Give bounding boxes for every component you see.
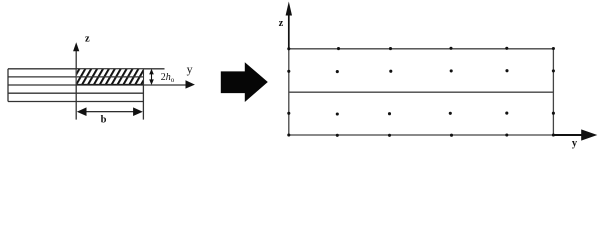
y-axis arrowhead (right figure) bbox=[581, 129, 597, 140]
beam layer line 4 bbox=[8, 92, 143, 94]
z-axis arrowhead (left figure) bbox=[73, 42, 79, 51]
z-axis line + b tick left bbox=[75, 51, 77, 120]
mesh node dots bbox=[287, 47, 555, 137]
mesh rect top edge bbox=[289, 48, 554, 50]
node row 2 (upper half middle) bbox=[287, 70, 290, 73]
node row 1 (top edge) bbox=[287, 47, 290, 50]
y-axis arrowhead (left figure) bbox=[186, 80, 195, 88]
node row 4 (bottom edge) bbox=[287, 133, 290, 136]
mesh rect left edge + z-axis line bbox=[288, 49, 290, 135]
z-axis line (right figure) bbox=[288, 13, 290, 50]
beam right edge + b tick right bbox=[142, 69, 144, 120]
beam left edge bbox=[7, 69, 9, 102]
hatched actuator layer bbox=[77, 69, 143, 84]
mesh rect right edge bbox=[552, 49, 554, 135]
mesh rect bottom edge / y-axis line bbox=[289, 134, 554, 136]
svg-text:b: b bbox=[101, 115, 107, 126]
z-axis arrowhead (right figure) bbox=[286, 2, 292, 16]
mesh rect mid line bbox=[289, 91, 554, 93]
b dimension double arrow bbox=[79, 111, 141, 113]
beam layer line 3 (midline / y-axis) bbox=[8, 84, 191, 86]
y-axis line (right figure) bbox=[553, 134, 584, 136]
beam layer line 5 (bottom) bbox=[8, 101, 143, 103]
2h_o dimension double arrow bbox=[151, 72, 153, 82]
hatch region mid line bbox=[77, 76, 143, 78]
svg-text:z: z bbox=[279, 18, 284, 29]
svg-text:y: y bbox=[187, 62, 193, 76]
node row 3 (lower half middle) bbox=[287, 112, 290, 115]
svg-text:y: y bbox=[572, 138, 578, 149]
beam layer line 1 (top, extends right for 2h dim) bbox=[8, 68, 165, 70]
svg-text:z: z bbox=[85, 33, 90, 44]
hatch bottom edge emphasis bbox=[77, 84, 143, 86]
beam layer line 2 bbox=[8, 76, 143, 78]
